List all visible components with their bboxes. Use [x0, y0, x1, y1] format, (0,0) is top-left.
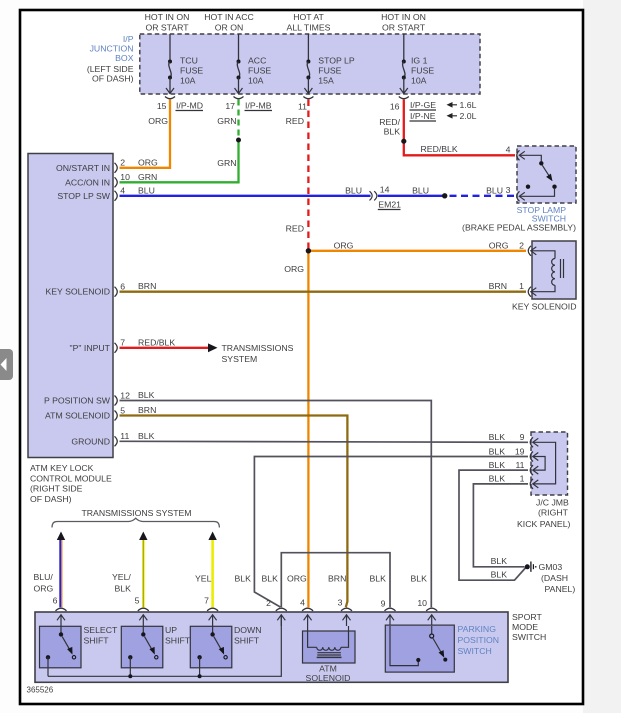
svg-text:12: 12	[120, 390, 130, 400]
J/C JMB pin 9 connector	[489, 432, 539, 447]
sport mode switch pin 2 connector	[266, 598, 287, 626]
splice dot on GRN wire	[236, 138, 241, 143]
svg-text:BLK: BLK	[489, 446, 506, 456]
svg-text:10A: 10A	[411, 76, 427, 86]
svg-text:9: 9	[381, 598, 386, 608]
svg-text:ORG: ORG	[489, 240, 509, 250]
svg-text:I/P: I/P	[123, 34, 134, 44]
svg-text:9: 9	[520, 432, 525, 442]
pin 17 connector I/P-MB	[225, 97, 272, 112]
svg-text:YEL/: YEL/	[112, 572, 131, 582]
wire BLK J/C JMB pin 19 to sport mode switch pin 2	[254, 457, 528, 608]
bottom wire color labels	[34, 572, 428, 593]
sport mode switch pin 5 connector	[135, 596, 149, 627]
svg-text:UP: UP	[165, 625, 177, 635]
wire GRN dashed upper segment from pin 17	[237, 100, 239, 141]
wire BLK J/C JMB pin 1 to GM03	[473, 484, 528, 567]
wire BLK jumper sport mode switch pin 2 to pin 9	[281, 553, 390, 608]
wire BRN module pin 5 to sport mode switch pin 3	[120, 416, 348, 608]
sport mode switch box	[35, 612, 508, 682]
svg-text:MODE: MODE	[512, 622, 538, 632]
svg-text:GM03: GM03	[539, 562, 563, 572]
svg-text:HOT IN ACC: HOT IN ACC	[204, 12, 254, 22]
svg-text:BLK: BLK	[262, 573, 279, 583]
svg-text:OR START: OR START	[145, 23, 189, 33]
svg-text:BLK: BLK	[411, 573, 428, 583]
svg-text:P POSITION SW: P POSITION SW	[44, 396, 111, 406]
key solenoid coil	[531, 251, 564, 292]
svg-text:ORG: ORG	[287, 573, 307, 583]
svg-text:6: 6	[53, 596, 58, 606]
stop lamp switch pin 4 connector	[517, 150, 525, 160]
junction dot on BLU wire	[442, 193, 447, 198]
svg-text:PANEL): PANEL)	[545, 584, 576, 594]
svg-text:BLK: BLK	[491, 556, 508, 566]
svg-text:BLK: BLK	[491, 570, 508, 580]
svg-text:BLK: BLK	[235, 573, 252, 583]
in-line connector 14 EM21	[370, 185, 402, 210]
svg-text:14: 14	[380, 185, 390, 195]
J/C JMB caption	[517, 498, 571, 530]
svg-text:11: 11	[298, 102, 307, 112]
svg-text:BLU: BLU	[138, 185, 155, 195]
svg-text:I/P-MB: I/P-MB	[245, 101, 272, 111]
wire BLK module pin 11 GROUND to J/C JMB pin 9	[120, 441, 529, 442]
svg-text:BLU: BLU	[345, 185, 362, 195]
svg-text:ORG: ORG	[148, 116, 168, 126]
svg-text:(RIGHT SIDE: (RIGHT SIDE	[30, 484, 83, 494]
wire BLK J/C JMB pin 11 to GM03	[459, 470, 528, 580]
svg-text:11: 11	[120, 431, 129, 441]
svg-text:7: 7	[120, 338, 125, 348]
ATM solenoid box	[303, 631, 356, 663]
svg-text:GROUND: GROUND	[71, 436, 110, 446]
pin 15 connector I/P-MD	[157, 97, 203, 112]
module pin 10 ACC/ON IN	[65, 172, 130, 187]
svg-text:SOLENOID: SOLENOID	[306, 673, 351, 683]
wire YEL/BLK sport pin 5	[142, 540, 145, 607]
junction dot RED to ORG	[306, 248, 311, 253]
sport mode switch pin 3 connector	[338, 597, 352, 626]
svg-text:3: 3	[506, 185, 511, 195]
svg-text:FUSE: FUSE	[180, 66, 203, 76]
svg-text:15: 15	[157, 101, 167, 111]
wire BLK module pin 12 to sport mode switch pin 10	[120, 401, 432, 608]
wire YEL sport pin 7	[211, 540, 214, 607]
wire GRN solid to module pin 10	[120, 140, 239, 182]
svg-text:6: 6	[120, 282, 125, 292]
I/P junction box label	[87, 34, 134, 84]
svg-text:11: 11	[515, 460, 524, 470]
feed label HOT IN ON OR START (IG 1 fuse)	[381, 12, 426, 33]
stop lamp switch pin 3 connector	[517, 191, 525, 201]
J/C JMB pin 11 connector	[489, 460, 539, 475]
wire BLU from module pin 4 to in-line connector EM21	[120, 195, 371, 197]
ATM solenoid coil	[308, 615, 349, 658]
parking position switch box	[385, 625, 454, 672]
svg-text:2: 2	[266, 598, 271, 608]
svg-text:OF DASH): OF DASH)	[92, 74, 134, 84]
svg-text:ATM KEY LOCK: ATM KEY LOCK	[30, 463, 94, 473]
svg-text:BLK: BLK	[384, 127, 401, 137]
svg-text:BOX: BOX	[115, 53, 134, 63]
module pin 6 KEY SOLENOID	[45, 282, 125, 297]
svg-text:YEL: YEL	[195, 573, 212, 583]
svg-text:SELECT: SELECT	[84, 625, 118, 635]
svg-text:19: 19	[515, 446, 525, 456]
svg-text:EM21: EM21	[378, 200, 401, 210]
svg-text:ORG: ORG	[34, 583, 54, 593]
svg-text:TRANSMISSIONS SYSTEM: TRANSMISSIONS SYSTEM	[81, 508, 191, 518]
svg-text:(RIGHT: (RIGHT	[538, 508, 569, 518]
wire BLU from EM21 to junction dot	[378, 195, 445, 197]
svg-text:PARKING: PARKING	[458, 624, 497, 634]
module ATM KEY LOCK CONTROL MODULE	[28, 154, 113, 458]
parking position switch contacts	[390, 626, 447, 666]
sport mode switch caption	[512, 612, 546, 642]
sport mode switch pin 10 connector	[417, 598, 437, 626]
arrow 1.6L	[448, 104, 457, 106]
sport mode switch pin 6 connector	[53, 596, 67, 627]
switch SELECT SHIFT	[40, 626, 82, 668]
junction dot on RED/BLK wire	[401, 139, 406, 144]
svg-text:"P" INPUT: "P" INPUT	[70, 343, 111, 353]
svg-text:BLK: BLK	[370, 573, 387, 583]
common rail wire inside sport mode switch	[48, 615, 281, 677]
svg-text:10A: 10A	[248, 76, 264, 86]
svg-text:TRANSMISSIONS: TRANSMISSIONS	[222, 343, 294, 353]
svg-text:BRN: BRN	[138, 281, 156, 291]
svg-text:IG 1: IG 1	[411, 56, 428, 66]
svg-text:4: 4	[300, 597, 305, 607]
svg-text:1: 1	[520, 474, 525, 484]
fuse ACC FUSE 10A	[235, 34, 272, 94]
svg-text:17: 17	[225, 101, 235, 111]
J/C JMB pin 19 connector	[489, 446, 539, 461]
svg-text:16: 16	[390, 102, 400, 112]
feed label HOT AT ALL TIMES (STOP LP fuse)	[287, 12, 331, 33]
svg-text:JUNCTION: JUNCTION	[90, 44, 134, 54]
sport mode switch pin 7 connector	[204, 596, 218, 627]
svg-text:OR ON: OR ON	[215, 23, 243, 33]
nav back button (left edge)	[0, 349, 13, 380]
svg-text:10: 10	[120, 172, 130, 182]
module pin 5 ATM SOLENOID	[45, 405, 125, 420]
key solenoid pin 2 connector	[528, 246, 536, 256]
svg-text:SHIFT: SHIFT	[84, 635, 110, 645]
svg-text:DOWN: DOWN	[234, 625, 262, 635]
svg-text:7: 7	[204, 596, 209, 606]
key solenoid pin 1 connector	[528, 287, 536, 297]
module pin 4 STOP LP SW	[57, 186, 125, 201]
module pin 2 ON/START IN	[56, 158, 125, 173]
J/C JMB internal jumper pins 9-1	[533, 442, 556, 484]
stop lamp switch caption	[462, 205, 576, 233]
svg-text:GRN: GRN	[217, 116, 236, 126]
svg-text:FUSE: FUSE	[411, 66, 434, 76]
svg-text:ATM SOLENOID: ATM SOLENOID	[45, 411, 110, 421]
svg-text:SWITCH: SWITCH	[458, 646, 492, 656]
switch UP SHIFT	[121, 626, 163, 668]
svg-text:BLU: BLU	[412, 185, 429, 195]
svg-text:FUSE: FUSE	[318, 66, 341, 76]
svg-text:BLK: BLK	[489, 460, 506, 470]
svg-text:BLK: BLK	[115, 583, 132, 593]
feed label HOT IN ON OR START (TCU fuse)	[145, 12, 190, 33]
arrow to transmissions system (pin 7)	[208, 532, 216, 541]
parking position switch caption	[458, 624, 500, 656]
module pin 12 P POSITION SW	[44, 390, 130, 405]
svg-text:BRN: BRN	[489, 281, 507, 291]
svg-text:5: 5	[120, 405, 125, 415]
stop lamp switch internal contacts	[519, 155, 556, 196]
svg-text:TCU: TCU	[180, 56, 198, 66]
fuse IG 1 FUSE 10A	[400, 34, 435, 94]
svg-text:STOP LP SW: STOP LP SW	[57, 191, 110, 201]
svg-text:BRN: BRN	[328, 573, 346, 583]
svg-text:1: 1	[519, 281, 524, 291]
svg-text:5: 5	[135, 596, 140, 606]
wire RED dashed from pin 11 down to ORG junction	[307, 100, 309, 251]
stop lamp switch box	[517, 146, 576, 203]
svg-text:I/P-GE: I/P-GE	[410, 100, 436, 110]
svg-text:ORG: ORG	[138, 157, 158, 167]
svg-text:15A: 15A	[318, 76, 334, 86]
wire ORG from pin 15 to module pin 2	[120, 100, 171, 168]
svg-text:GRN: GRN	[217, 158, 236, 168]
svg-text:RED/: RED/	[379, 117, 400, 127]
arrow to transmissions system (pin 6)	[57, 532, 65, 541]
svg-text:(LEFT SIDE: (LEFT SIDE	[87, 64, 134, 74]
svg-text:10A: 10A	[180, 76, 196, 86]
svg-text:RED: RED	[286, 116, 304, 126]
fuse STOP LP FUSE 15A	[304, 34, 354, 94]
svg-text:ORG: ORG	[284, 264, 304, 274]
svg-text:RED: RED	[286, 224, 304, 234]
I/P junction box	[140, 34, 480, 94]
svg-text:4: 4	[120, 186, 125, 196]
svg-text:ACC: ACC	[248, 56, 266, 66]
module caption	[30, 463, 112, 504]
svg-text:GRN: GRN	[138, 172, 157, 182]
svg-text:BLU/: BLU/	[34, 572, 54, 582]
svg-text:BLK: BLK	[138, 390, 155, 400]
sport mode switch pin 9 connector	[381, 598, 396, 626]
svg-text:2: 2	[519, 240, 524, 250]
svg-text:STOP LP: STOP LP	[318, 56, 355, 66]
fuse TCU FUSE 10A	[166, 34, 203, 94]
svg-text:RED/BLK: RED/BLK	[421, 144, 458, 154]
svg-text:SYSTEM: SYSTEM	[222, 354, 258, 364]
svg-text:OF DASH): OF DASH)	[30, 494, 72, 504]
svg-text:(DASH: (DASH	[541, 573, 568, 583]
svg-text:BLK: BLK	[138, 431, 155, 441]
J/C JMB box	[531, 432, 568, 495]
svg-text:1.6L: 1.6L	[460, 100, 477, 110]
ATM solenoid caption	[306, 664, 351, 683]
wire BLU dashed to stop lamp switch pin 3	[450, 195, 516, 197]
module pin 11 GROUND	[71, 431, 129, 446]
wire BRN module pin 6 to key solenoid pin 1	[120, 291, 527, 293]
J/C JMB internal jumper pins 19-11	[533, 457, 545, 471]
svg-text:ACC/ON IN: ACC/ON IN	[65, 177, 110, 187]
svg-text:OR START: OR START	[382, 23, 426, 33]
transmissions system brace	[52, 518, 219, 527]
arrow to transmissions system (pin 5)	[139, 532, 147, 541]
J/C JMB pin 1 connector	[489, 474, 539, 489]
svg-text:RED/BLK: RED/BLK	[138, 337, 175, 347]
svg-text:HOT IN ON: HOT IN ON	[145, 12, 190, 22]
svg-text:10: 10	[417, 598, 427, 608]
svg-text:SHIFT: SHIFT	[165, 635, 191, 645]
svg-text:POSITION: POSITION	[458, 635, 500, 645]
svg-text:ORG: ORG	[334, 240, 354, 250]
svg-text:SWITCH: SWITCH	[512, 632, 546, 642]
svg-text:KEY SOLENOID: KEY SOLENOID	[512, 302, 577, 312]
wire BLU/ORG sport pin 6	[59, 540, 61, 607]
svg-text:KICK PANEL): KICK PANEL)	[517, 519, 571, 529]
svg-text:SHIFT: SHIFT	[234, 635, 260, 645]
svg-text:SPORT: SPORT	[512, 612, 542, 622]
svg-text:BLU: BLU	[486, 185, 503, 195]
wire ORG to key solenoid pin 2	[308, 250, 526, 252]
svg-text:FUSE: FUSE	[248, 66, 271, 76]
svg-text:ALL TIMES: ALL TIMES	[287, 23, 331, 33]
svg-text:BRN: BRN	[138, 405, 156, 415]
svg-text:(BRAKE PEDAL ASSEMBLY): (BRAKE PEDAL ASSEMBLY)	[462, 223, 576, 233]
svg-text:I/P-NE: I/P-NE	[410, 111, 436, 121]
ground point GM03 (dash panel)	[525, 562, 576, 595]
wire RED/BLK from pin 16 to stop lamp switch pin 4	[404, 100, 515, 156]
svg-text:BLK: BLK	[489, 432, 506, 442]
svg-text:J/C JMB: J/C JMB	[536, 498, 569, 508]
svg-text:4: 4	[506, 144, 511, 154]
svg-text:BLK: BLK	[489, 474, 506, 484]
svg-text:3: 3	[338, 597, 343, 607]
svg-text:HOT AT: HOT AT	[293, 12, 324, 22]
svg-text:CONTROL MODULE: CONTROL MODULE	[30, 473, 112, 483]
svg-text:I/P-MD: I/P-MD	[176, 101, 203, 111]
svg-text:2.0L: 2.0L	[460, 111, 477, 121]
key solenoid box	[532, 241, 576, 299]
switch DOWN SHIFT	[190, 626, 232, 668]
svg-text:365526: 365526	[27, 686, 54, 695]
pin 11 connector	[298, 97, 313, 112]
pin 16 connector I/P-GE / I/P-NE	[379, 97, 476, 137]
svg-text:ON/START IN: ON/START IN	[56, 163, 110, 173]
svg-text:KEY SOLENOID: KEY SOLENOID	[45, 287, 110, 297]
svg-text:2: 2	[120, 158, 125, 168]
sport mode switch pin 4 connector	[300, 597, 313, 626]
feed label HOT IN ACC OR ON (ACC fuse)	[204, 12, 254, 33]
arrow 2.0L	[448, 115, 457, 117]
module pin 7 P INPUT	[70, 338, 126, 353]
wire ORG down to sport mode switch pin 4	[307, 251, 309, 607]
svg-text:HOT IN ON: HOT IN ON	[381, 12, 426, 22]
wire RED/BLK P INPUT to transmissions system	[120, 347, 210, 349]
